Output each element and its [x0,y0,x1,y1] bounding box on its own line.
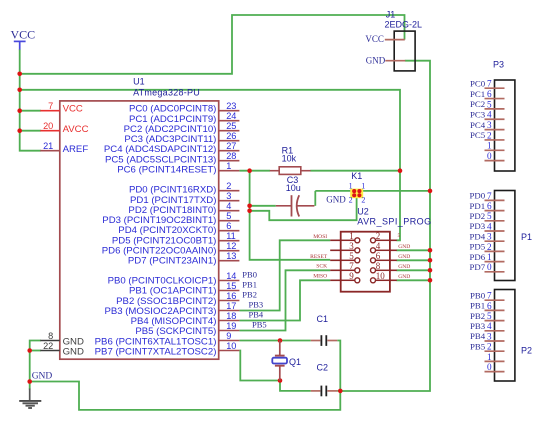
wire U2 pin10 GND [397,279,431,281]
U2 pins 9/10 [330,271,397,283]
svg-text:4: 4 [376,241,381,251]
P2 pin 4 net PB3 [470,321,504,331]
svg-text:RESET: RESET [310,254,328,260]
node GND junction U2 pin10 [428,278,433,283]
svg-text:1: 1 [349,231,354,241]
U1 pin 27 PC4 [104,141,240,155]
svg-text:GND: GND [32,372,53,382]
U1 pin 15 PB1 [129,281,239,297]
svg-text:2: 2 [487,342,492,352]
svg-text:PB0: PB0 [242,270,257,280]
capacitor C1 [311,314,338,346]
node GND junction U2 pin8 [428,268,433,273]
P1 pin 2 net PD5 [470,242,505,252]
svg-text:1: 1 [487,352,492,362]
svg-text:VCC: VCC [365,34,384,44]
node RESET junction R1 left [247,168,252,173]
svg-text:5: 5 [487,311,492,321]
U1 pin 10 PB7 [95,341,240,358]
U2 signal labels [310,233,410,280]
svg-text:MOSI: MOSI [313,234,327,240]
svg-text:PB1: PB1 [470,301,485,311]
svg-text:0: 0 [487,262,492,272]
U1 pin 20 AVCC [40,121,88,135]
svg-text:19: 19 [226,321,236,331]
svg-text:10: 10 [376,271,386,281]
U1 pin 11 PD5 [112,231,240,246]
wire pin1 PC6 to R1 left [239,170,270,172]
svg-text:GND: GND [398,274,410,280]
svg-text:6: 6 [487,301,492,311]
wire PB3 MOSI to U2 pin1 [239,240,330,310]
svg-text:10k: 10k [282,153,297,163]
U1 pin 4 PD2 [128,201,239,216]
P3 pin 5 net PC2 [470,99,504,109]
svg-text:PD1: PD1 [470,201,486,211]
svg-text:13: 13 [226,251,236,261]
P2 pin 6 net PB1 [470,301,504,311]
capacitor C3 10u [276,175,315,217]
svg-text:0: 0 [487,151,492,161]
P2 pin 0 [485,362,505,372]
svg-text:2: 2 [349,196,353,205]
node GND junction pin22 [27,348,32,353]
P2 pin 1 [485,352,505,362]
svg-text:5: 5 [487,99,492,109]
svg-text:PC2: PC2 [470,99,485,109]
U1 pin 9 PB6 [95,331,240,347]
J1 pin GND [366,55,406,65]
power symbol VCC [11,27,36,50]
U1 pin 5 PD3 [102,211,239,226]
svg-text:7: 7 [487,191,492,201]
U1 pin 14 PB0 [108,271,240,287]
P1 pin 6 net PD1 [470,201,505,211]
P1 pin 5 net PD2 [470,211,505,221]
wire PB5 SCK to U2 pin7 [239,270,330,330]
U1 pin 1 PC6 [117,161,239,175]
U1 pin 16 PB2 [116,291,239,307]
wire C3 right up [314,191,316,206]
svg-text:7: 7 [48,101,53,111]
svg-text:18: 18 [226,311,236,321]
P1 pin 7 net PD0 [470,191,505,201]
svg-text:4: 4 [226,201,231,211]
svg-text:9: 9 [349,271,354,281]
svg-text:PD7: PD7 [470,262,486,272]
svg-text:10: 10 [226,341,236,351]
svg-text:1: 1 [349,181,353,190]
svg-text:7: 7 [487,79,492,89]
svg-text:2: 2 [487,130,492,140]
svg-text:P2: P2 [521,345,532,355]
U1 pin 18 PB4 [131,311,240,327]
svg-text:PC0: PC0 [470,78,486,88]
wire pin22 GND [30,350,41,352]
U2 pins 7/8 [330,261,397,273]
U2 pins 1/2 [330,231,397,243]
wire pin8 GND down [30,341,41,390]
ground [19,389,41,409]
svg-text:28: 28 [226,151,236,161]
node GND junction C2 [338,389,343,394]
svg-text:PD2: PD2 [470,211,486,221]
svg-text:2: 2 [487,242,492,252]
svg-text:PD4: PD4 [470,231,486,241]
P2 pin 7 net PB0 [470,290,504,300]
U1 pin 2 PD0 [129,181,239,196]
svg-text:27: 27 [226,141,236,151]
svg-text:6: 6 [376,251,381,261]
U1 pin 7 VCC [40,101,83,115]
svg-text:VCC: VCC [63,104,83,115]
U1 pin 3 PD1 [130,191,239,206]
wire VCC to pin7 [20,110,41,112]
svg-text:AVCC: AVCC [63,124,89,135]
node GND junction K1 [428,189,433,194]
connector P1 [495,191,533,281]
svg-text:4: 4 [487,110,492,120]
svg-text:1: 1 [487,252,492,262]
svg-text:3: 3 [349,241,354,251]
svg-text:P1: P1 [521,232,532,242]
svg-text:VCC: VCC [11,27,36,41]
crystal Q1 [272,341,301,381]
P1 pin 0 net PD7 [470,262,505,272]
svg-text:K1: K1 [351,171,362,181]
resistor R1 [270,145,311,174]
node RESET junction C3 [247,204,252,209]
svg-text:25: 25 [226,121,236,131]
svg-text:PD7 (PCINT23AIN1): PD7 (PCINT23AIN1) [128,256,217,267]
wire VCC to pin20 AVCC [20,130,41,132]
U1 pin 8 GND [40,331,84,347]
svg-text:4: 4 [487,221,492,231]
P2 pin 3 net PB4 [470,331,504,341]
wire PB4 MISO to U2 pin9 [239,280,330,320]
wire U2 pin6 GND [397,259,431,261]
svg-text:PB0: PB0 [470,290,486,300]
svg-text:1: 1 [226,161,231,171]
svg-text:3: 3 [487,120,492,130]
wire VCC rail left down to AREF [20,50,41,151]
P2 pin 2 net PB5 [470,341,504,351]
svg-text:7: 7 [487,291,492,301]
svg-text:0: 0 [487,362,492,372]
svg-text:GND: GND [398,254,410,260]
svg-text:15: 15 [226,281,236,291]
svg-text:U1: U1 [133,76,145,86]
capacitor C2 [311,362,338,396]
svg-text:PB2: PB2 [242,290,257,300]
svg-text:20: 20 [43,121,53,131]
P1 pin 1 net PD6 [470,252,505,262]
wire U2 pin4 GND [397,249,431,251]
U1 pin 19 PB5 [135,321,239,337]
svg-text:PB1: PB1 [242,280,257,290]
wire VCC vertical to U2 pin2 [20,90,400,241]
svg-text:22: 22 [43,341,53,351]
transistor U1 ATmega328-PU body [60,101,219,359]
U1 pin 26 PC3 [124,131,239,145]
wire VCC to J1 pin VCC [20,15,405,74]
svg-text:PC5: PC5 [470,130,486,140]
P3 pin 0 [485,151,505,161]
U1 pin 22 GND [40,341,84,358]
P3 pin 1 [485,141,505,151]
connector J1 2EDG-2L [385,10,423,71]
svg-text:26: 26 [226,131,236,141]
U1 pin 25 PC2 [124,121,240,135]
svg-text:J1: J1 [386,10,396,20]
svg-text:GND: GND [398,244,410,250]
wire R1 right to VCC vertical [310,170,400,172]
svg-text:3: 3 [487,331,492,341]
svg-text:23: 23 [226,101,236,111]
wire C2 right short [337,390,340,392]
svg-text:C2: C2 [317,362,329,372]
U2 pins 5/6 [330,251,397,263]
svg-text:PD6: PD6 [470,252,486,262]
svg-text:3: 3 [226,191,231,201]
svg-text:16: 16 [226,291,236,301]
node GND junction label [27,379,32,384]
svg-text:C1: C1 [317,314,329,324]
svg-text:6: 6 [487,89,492,99]
P3 pin 7 net PC0 [470,78,504,88]
svg-text:5: 5 [349,251,354,261]
svg-text:PB4: PB4 [470,331,486,341]
svg-text:5: 5 [398,233,401,239]
connector U2 body [341,232,390,292]
wire pin9 XTAL1 to Q1 top and C1 left [239,340,310,342]
svg-text:GND: GND [366,55,386,65]
svg-text:PB7 (PCINT7XTAL2TOSC2): PB7 (PCINT7XTAL2TOSC2) [95,346,217,357]
node VCC junction B [17,88,22,93]
U1 pin 6 PD4 [118,221,239,236]
svg-text:PB5: PB5 [252,320,267,330]
svg-text:PC6 (PCINT14RESET): PC6 (PCINT14RESET) [117,164,216,175]
wire C3 right / K1 top to GND vertical [315,190,430,192]
P3 pin 3 net PC4 [470,120,504,130]
node VCC junction A [17,72,22,77]
svg-text:12: 12 [226,241,236,251]
svg-text:4: 4 [487,321,492,331]
connector P2 [495,290,533,382]
U1 pin 23 PC0 [129,101,239,115]
svg-text:PC1: PC1 [470,89,485,99]
node XTAL2 junction [278,378,283,383]
svg-text:1: 1 [361,181,365,190]
P3 pin 4 net PC3 [470,109,504,119]
svg-text:14: 14 [226,271,236,281]
svg-text:P3: P3 [493,60,504,70]
svg-text:AREF: AREF [63,144,89,155]
wire Q1 bottom to C2 left [280,381,311,391]
svg-text:GND: GND [326,195,346,205]
svg-text:6: 6 [487,201,492,211]
svg-text:Q1: Q1 [289,357,301,367]
node RESET junction tap [247,209,252,214]
svg-text:ATmega328-PU: ATmega328-PU [133,87,200,97]
U1 pin 28 PC5 [105,151,239,165]
svg-text:MISO: MISO [313,274,327,280]
svg-text:PD5: PD5 [470,242,486,252]
svg-text:3: 3 [487,232,492,242]
svg-text:GND: GND [398,264,410,270]
wire C1 right down to C2 right [337,341,340,391]
svg-text:PB2: PB2 [470,311,485,321]
svg-text:PC3: PC3 [470,109,486,119]
wire GND bottom rail [30,382,341,410]
svg-text:GND: GND [63,346,84,357]
P3 pin 2 net PC5 [470,130,504,140]
svg-text:PB3: PB3 [249,300,264,310]
svg-text:PD0: PD0 [470,191,486,201]
node GND junction U2 pin4 [428,248,433,253]
svg-text:17: 17 [226,301,236,311]
U1 pin 12 PD6 [102,241,240,256]
svg-text:2EDG-2L: 2EDG-2L [385,19,423,29]
svg-text:9: 9 [226,331,231,341]
J1 pin VCC [365,34,404,44]
svg-text:2: 2 [361,196,365,205]
svg-text:5: 5 [226,211,231,221]
svg-text:PB3: PB3 [470,321,486,331]
U1 pin 24 PC1 [129,111,239,125]
jumper K1 [349,171,366,204]
node VCC junction pin20 [17,128,22,133]
node XTAL1 junction [278,338,283,343]
node GND junction U2 pin6 [428,258,433,263]
svg-text:5: 5 [487,211,492,221]
svg-text:PD3: PD3 [470,221,486,231]
svg-text:2: 2 [226,181,231,191]
node VCC junction pin7 [17,108,22,113]
U1 pin 17 PB3 [104,301,239,317]
svg-text:PB5: PB5 [470,341,486,351]
svg-text:10u: 10u [286,183,301,193]
svg-text:6: 6 [226,221,231,231]
svg-text:21: 21 [43,141,53,151]
wire J1 GND down right side [340,61,430,391]
svg-text:2: 2 [376,231,381,241]
P2 pin 5 net PB2 [470,311,504,321]
node VCC junction R1 right [398,168,403,173]
connector P3 [493,60,515,172]
U2 pins 3/4 [330,241,397,253]
P1 pin 4 net PD3 [470,221,505,231]
U1 pin 13 PD7 [128,251,240,267]
svg-text:1: 1 [487,141,492,151]
P3 pin 6 net PC1 [470,89,504,99]
svg-text:U2: U2 [357,206,369,216]
svg-text:AVR_SPI_PROG: AVR_SPI_PROG [357,216,431,226]
svg-text:PC4: PC4 [470,120,486,130]
wire pin10 XTAL2 to Q1 bottom [239,351,280,381]
svg-text:24: 24 [226,111,236,121]
svg-text:11: 11 [226,231,236,241]
P1 pin 3 net PD4 [470,231,505,241]
wire RESET vertical to U2 pin5 [250,171,331,260]
svg-text:8: 8 [48,331,53,341]
wire RESET tap to K1 bottom [250,192,357,220]
svg-text:7: 7 [349,261,354,271]
svg-text:PB4: PB4 [249,310,264,320]
svg-text:SCK: SCK [316,264,327,270]
wire RESET to C3 left [250,205,276,207]
svg-text:8: 8 [376,261,381,271]
wire U2 pin8 GND [397,269,431,271]
U1 pin 21 AREF [40,141,88,155]
